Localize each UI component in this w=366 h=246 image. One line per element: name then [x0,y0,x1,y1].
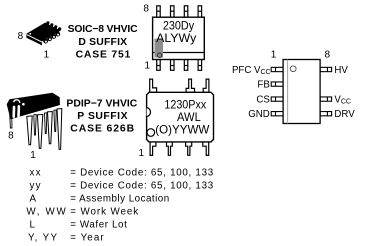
svg-text:1: 1 [271,50,277,61]
svg-text:230Dy: 230Dy [163,20,194,33]
svg-text:8: 8 [143,3,149,14]
svg-text:CASE 626B: CASE 626B [70,123,134,134]
svg-text:PDIP−7 VHVIC: PDIP−7 VHVIC [66,98,137,109]
svg-text:ALYWy: ALYWy [156,32,196,45]
svg-text:AWL: AWL [177,111,201,124]
svg-text:L: L [30,220,36,231]
svg-text:1: 1 [44,50,50,61]
svg-text:W, WW: W, WW [26,207,66,218]
svg-text:D SUFFIX: D SUFFIX [78,37,127,48]
svg-text:1: 1 [139,148,145,159]
svg-text:= Work Week: = Work Week [70,207,138,218]
svg-text:yy: yy [30,181,41,192]
svg-text:CASE 751: CASE 751 [76,50,131,61]
svg-text:(O)YYWW: (O)YYWW [155,124,209,137]
svg-text:1230Pxx: 1230Pxx [164,99,206,112]
svg-text:HV: HV [334,65,348,76]
svg-text:8: 8 [325,50,331,61]
svg-text:DRV: DRV [334,109,355,120]
svg-text:Y, YY: Y, YY [28,233,57,244]
svg-text:GND: GND [248,109,270,120]
svg-text:= Wafer Lot: = Wafer Lot [70,220,127,231]
svg-text:8: 8 [18,31,24,42]
svg-text:SOIC−8 VHVIC: SOIC−8 VHVIC [68,24,138,35]
svg-text:A: A [30,194,37,205]
svg-text:1: 1 [30,150,36,161]
svg-text:xx: xx [30,168,41,179]
svg-text:= Device Code: 65, 100, 133: = Device Code: 65, 100, 133 [70,168,214,179]
svg-text:= Year: = Year [70,233,104,244]
svg-text:CS: CS [256,95,270,106]
svg-text:= Device Code: 65, 100, 133: = Device Code: 65, 100, 133 [70,181,214,192]
svg-text:1: 1 [145,60,151,71]
svg-text:P SUFFIX: P SUFFIX [77,111,127,122]
svg-text:FB: FB [257,80,269,91]
svg-text:= Assembly Location: = Assembly Location [70,194,169,205]
svg-text:8: 8 [8,131,14,142]
